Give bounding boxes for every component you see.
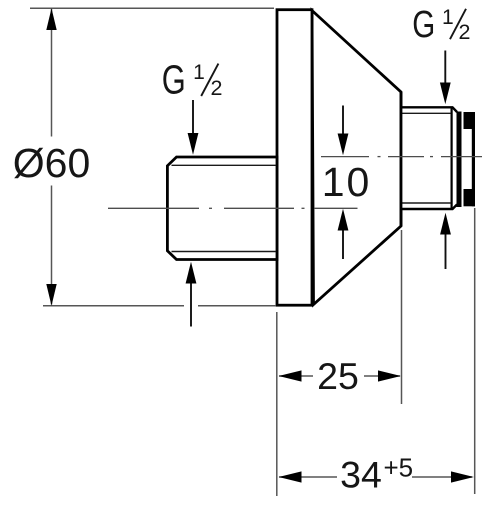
- extension line right (seal end, for 34): [474, 208, 476, 494]
- nipple thread root lines: [402, 112, 451, 114]
- extension line top (O60): [30, 7, 274, 9]
- centerline of pipe axis: [108, 207, 358, 209]
- svg-text:2: 2: [459, 20, 471, 44]
- dimension 10: upper arrow (down to nipple axis): [342, 106, 344, 135]
- arrow G1/2 right bottom (up): [445, 235, 447, 270]
- svg-text:1: 1: [193, 61, 205, 84]
- threaded nipple body (right): [401, 92, 457, 226]
- svg-text:25: 25: [317, 355, 359, 397]
- label G1/2 left: [162, 56, 223, 102]
- dimension line 34+5: [279, 476, 337, 478]
- extension line left (flange face, for 25 and 34): [276, 312, 278, 496]
- svg-text:Ø60: Ø60: [13, 140, 91, 186]
- cone right face redraw: [400, 92, 403, 226]
- svg-text:G: G: [412, 4, 435, 46]
- svg-text:10: 10: [322, 159, 372, 205]
- label G1/2 right: [412, 4, 470, 46]
- wall-side threaded pipe (left): [167, 157, 277, 260]
- extension line bottom (O60): [43, 305, 184, 307]
- dimension line 25: [279, 375, 313, 377]
- svg-text:2: 2: [211, 76, 223, 100]
- extension line middle (nipple start, for 25): [401, 230, 403, 404]
- pipe thread root lines: [172, 164, 277, 166]
- arrow G1/2 right top (down): [444, 51, 446, 84]
- dimension line O60 (vertical): [51, 9, 53, 137]
- dimension 10: lower arrow (up to pipe axis): [342, 231, 344, 260]
- arrow G1/2 left bottom (up): [190, 284, 192, 327]
- flange (front view rectangle): [277, 10, 312, 306]
- seal ring (black C-section): [464, 112, 476, 206]
- cone body: [312, 11, 401, 305]
- svg-text:+5: +5: [384, 453, 414, 483]
- arrow G1/2 left top (down): [192, 100, 194, 134]
- svg-text:34: 34: [340, 453, 382, 495]
- centerline of nipple axis: [321, 156, 482, 158]
- svg-text:G: G: [162, 56, 186, 102]
- seal groove bar (black): [457, 112, 462, 208]
- svg-text:1: 1: [442, 6, 454, 29]
